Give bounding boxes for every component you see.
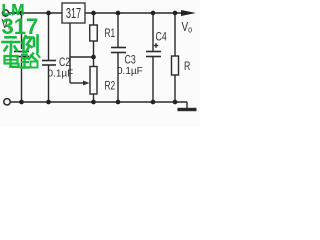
svg-text:317: 317 xyxy=(66,5,81,22)
wire C4 column upper xyxy=(152,13,154,52)
junction dots bottom rail xyxy=(19,100,24,105)
wire ADJ pin vertical xyxy=(69,23,71,83)
char li xyxy=(23,36,26,43)
wire R1 bottom to junction xyxy=(93,41,95,67)
wire ADJ to R1/R2 junction xyxy=(70,56,94,58)
resistor R1 body xyxy=(90,25,98,41)
ground terminal circle xyxy=(4,99,10,105)
resistor R body xyxy=(172,56,179,75)
potentiometer R2 body xyxy=(90,67,97,95)
input current arrow (hidden behind green text) xyxy=(12,11,18,16)
capacitor C1 plates (hidden behind green text) xyxy=(14,51,29,53)
wire R1 column top xyxy=(93,13,95,25)
char lu xyxy=(22,55,27,59)
wire C4 column lower xyxy=(152,57,154,102)
regulator U1 317 xyxy=(62,3,85,23)
capacitor C4 polarity plus xyxy=(154,45,158,47)
wire C2 column lower xyxy=(48,66,50,103)
output arrowhead Vo xyxy=(181,10,196,16)
junction dot R1/R2 node xyxy=(91,55,96,60)
svg-text:R: R xyxy=(184,60,191,74)
svg-text:C2: C2 xyxy=(59,56,70,70)
capacitor C4 plates xyxy=(146,51,161,53)
capacitor C2 plates xyxy=(42,60,56,62)
wire C2 column upper xyxy=(48,13,50,60)
svg-text:R1: R1 xyxy=(105,28,116,41)
capacitor C3 plates xyxy=(111,47,126,49)
input terminal Vi xyxy=(2,10,8,16)
junction dots top rail xyxy=(19,11,177,105)
wire bottom rail xyxy=(10,101,187,103)
char shi xyxy=(6,36,16,39)
green overlay text dian-lu (circuit) hand-drawn xyxy=(5,53,40,68)
green overlay text shi-li (example) hand-drawn xyxy=(3,36,38,53)
svg-text:C3: C3 xyxy=(125,53,136,67)
wire R2 wiper horizontal xyxy=(70,82,84,84)
char dian xyxy=(9,53,11,67)
wire top rail input to regulator xyxy=(9,12,63,14)
R2 wiper arrowhead xyxy=(83,81,90,86)
wire C3 column lower xyxy=(117,53,119,102)
wire C1 column (hidden behind green text) xyxy=(21,13,23,49)
svg-text:0.1µF: 0.1µF xyxy=(117,66,143,77)
svg-text:0.1µF: 0.1µF xyxy=(48,69,74,80)
wire C3 column upper xyxy=(117,13,119,48)
wire R load column bottom xyxy=(174,75,176,102)
svg-text:C4: C4 xyxy=(156,30,167,44)
wire to ground symbol xyxy=(186,102,188,108)
wire top rail regulator to output arrow xyxy=(85,12,183,14)
wire R load column top xyxy=(174,13,176,56)
wire R2 bottom xyxy=(93,94,95,102)
ground symbol bar xyxy=(178,108,197,111)
svg-text:R2: R2 xyxy=(105,80,116,93)
svg-text:317: 317 xyxy=(2,14,39,39)
